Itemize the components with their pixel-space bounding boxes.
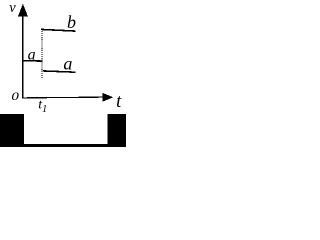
svg-text:t: t: [116, 92, 122, 112]
v-axis (vertical axis line): [22, 13, 24, 98]
svg-text:1: 1: [42, 104, 47, 115]
svg-text:a: a: [28, 46, 36, 63]
dotted vertical line at t1: [41, 31, 43, 78]
segment at level b (right of t1): [41, 29, 76, 31]
svg-text:0: 0: [11, 89, 19, 102]
bottom black band: [0, 144, 126, 147]
bottom-left black block: [0, 114, 24, 147]
segment at level a (left, from v-axis to t1): [22, 60, 43, 63]
v-axis arrowhead: [18, 4, 28, 17]
t-axis arrowhead: [102, 93, 113, 102]
background: [0, 0, 126, 147]
t-axis (horizontal axis line): [22, 96, 104, 99]
segment at level a (right of t1): [43, 71, 76, 72]
svg-text:a: a: [63, 53, 72, 73]
svg-text:b: b: [67, 12, 76, 32]
svg-text:v: v: [9, 0, 16, 16]
bottom-right black block: [108, 114, 126, 147]
